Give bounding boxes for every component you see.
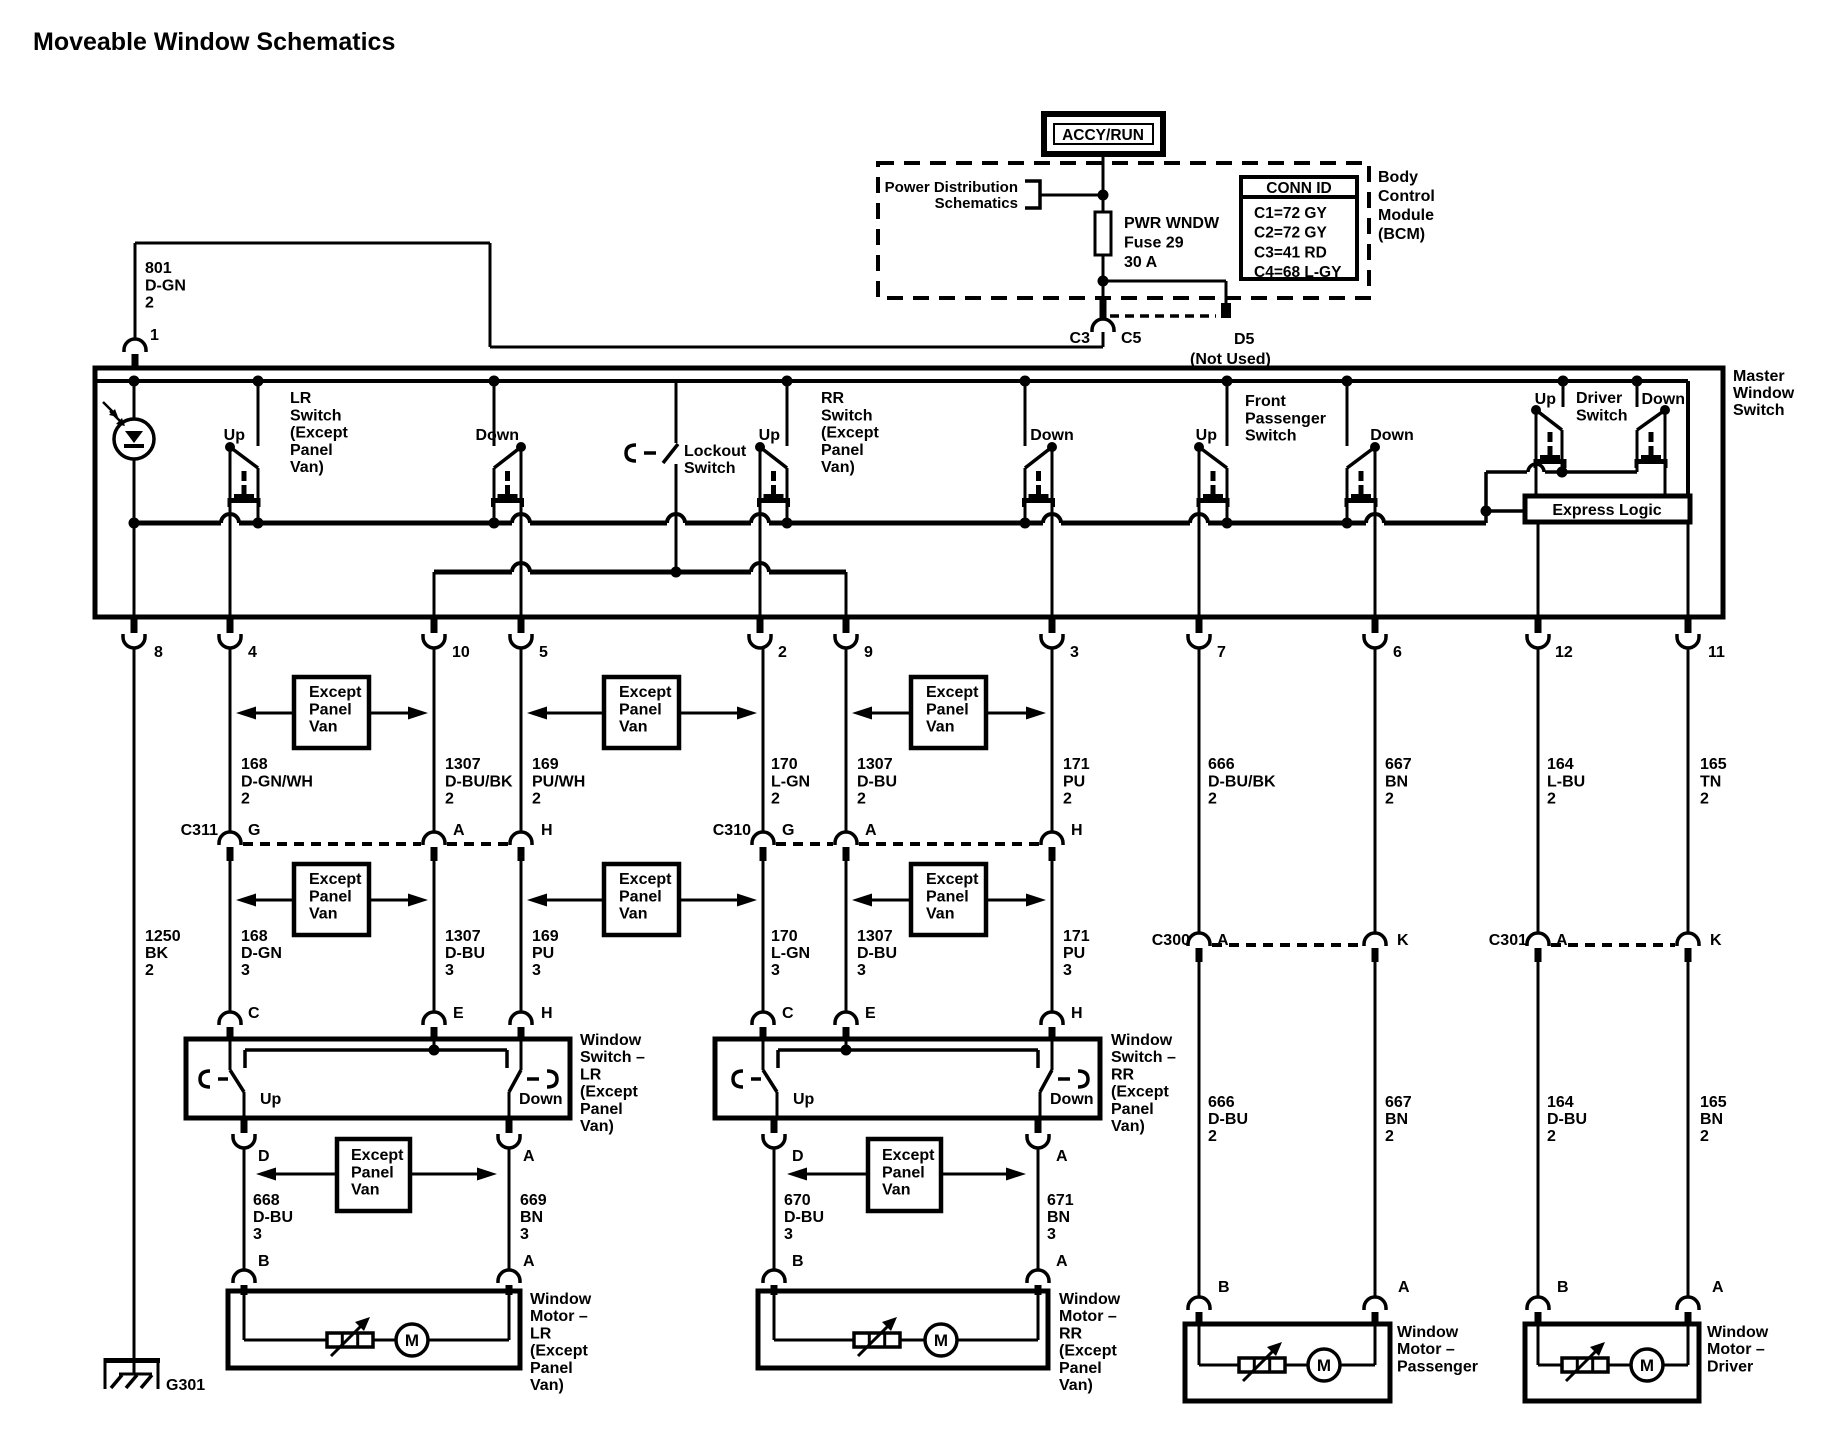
- svg-text:Motor –: Motor –: [1707, 1341, 1765, 1358]
- svg-text:170: 170: [771, 756, 798, 773]
- svg-text:169: 169: [532, 756, 559, 773]
- svg-text:Up: Up: [260, 1091, 282, 1108]
- svg-text:Panel: Panel: [1111, 1101, 1154, 1118]
- svg-text:Schematics: Schematics: [935, 195, 1018, 212]
- svg-text:667: 667: [1385, 1094, 1412, 1111]
- svg-text:D-BU/BK: D-BU/BK: [445, 773, 513, 790]
- svg-text:RR: RR: [1059, 1325, 1083, 1342]
- svg-text:Motor –: Motor –: [1397, 1341, 1455, 1358]
- svg-text:3: 3: [771, 962, 780, 979]
- svg-text:Panel: Panel: [619, 888, 662, 905]
- svg-text:Panel: Panel: [290, 442, 333, 459]
- svg-text:D: D: [258, 1148, 270, 1165]
- svg-text:Fuse 29: Fuse 29: [1124, 235, 1184, 252]
- svg-text:666: 666: [1208, 756, 1235, 773]
- svg-text:Panel: Panel: [882, 1164, 925, 1181]
- svg-text:Van): Van): [580, 1118, 614, 1135]
- svg-text:C300: C300: [1152, 932, 1190, 949]
- svg-text:171: 171: [1063, 756, 1090, 773]
- svg-text:2: 2: [1700, 1128, 1709, 1145]
- svg-text:C1=72 GY: C1=72 GY: [1254, 205, 1327, 222]
- svg-text:170: 170: [771, 928, 798, 945]
- svg-text:M: M: [405, 1331, 419, 1350]
- svg-text:D: D: [792, 1148, 804, 1165]
- svg-text:C301: C301: [1489, 932, 1527, 949]
- svg-text:Except: Except: [882, 1147, 935, 1164]
- svg-text:3: 3: [445, 962, 454, 979]
- svg-text:2: 2: [1208, 1128, 1217, 1145]
- svg-text:H: H: [1071, 1005, 1083, 1022]
- svg-text:Panel: Panel: [351, 1164, 394, 1181]
- svg-text:A: A: [1398, 1279, 1410, 1296]
- svg-text:Except: Except: [309, 871, 362, 888]
- svg-text:Except: Except: [926, 871, 979, 888]
- svg-text:PWR WNDW: PWR WNDW: [1124, 215, 1220, 232]
- svg-text:Van: Van: [619, 906, 647, 923]
- svg-text:Van): Van): [821, 459, 855, 476]
- svg-text:Panel: Panel: [821, 442, 864, 459]
- svg-text:L-GN: L-GN: [771, 945, 810, 962]
- svg-text:2: 2: [1063, 791, 1072, 808]
- svg-text:Van: Van: [926, 719, 954, 736]
- svg-text:Body: Body: [1378, 169, 1418, 186]
- svg-text:(Except: (Except: [1059, 1343, 1117, 1360]
- svg-text:3: 3: [857, 962, 866, 979]
- svg-text:Down: Down: [1050, 1091, 1094, 1108]
- svg-text:168: 168: [241, 928, 268, 945]
- svg-text:Down: Down: [475, 427, 519, 444]
- svg-text:B: B: [1557, 1279, 1569, 1296]
- svg-text:C3=41 RD: C3=41 RD: [1254, 244, 1327, 261]
- svg-text:BN: BN: [1385, 773, 1408, 790]
- svg-text:Express Logic: Express Logic: [1552, 502, 1661, 519]
- svg-text:Except: Except: [309, 684, 362, 701]
- svg-text:CONN ID: CONN ID: [1266, 180, 1331, 197]
- svg-text:1307: 1307: [857, 928, 893, 945]
- svg-text:(BCM): (BCM): [1378, 226, 1425, 243]
- svg-text:D-BU: D-BU: [857, 945, 897, 962]
- svg-text:TN: TN: [1700, 773, 1721, 790]
- svg-text:(Except: (Except: [290, 425, 348, 442]
- svg-text:Motor –: Motor –: [1059, 1308, 1117, 1325]
- svg-text:C4=68 L-GY: C4=68 L-GY: [1254, 264, 1342, 281]
- svg-text:C2=72 GY: C2=72 GY: [1254, 225, 1327, 242]
- svg-text:Except: Except: [926, 684, 979, 701]
- svg-text:(Except: (Except: [530, 1343, 588, 1360]
- svg-text:D-GN: D-GN: [241, 945, 282, 962]
- svg-text:169: 169: [532, 928, 559, 945]
- svg-text:Van): Van): [1059, 1377, 1093, 1394]
- svg-text:K: K: [1397, 932, 1409, 949]
- svg-text:Up: Up: [759, 427, 781, 444]
- svg-text:2: 2: [1208, 791, 1217, 808]
- svg-text:Van: Van: [619, 719, 647, 736]
- svg-text:B: B: [1218, 1279, 1230, 1296]
- svg-text:D-GN/WH: D-GN/WH: [241, 773, 313, 790]
- svg-text:D-BU: D-BU: [1547, 1111, 1587, 1128]
- svg-text:Van: Van: [926, 906, 954, 923]
- svg-text:BN: BN: [1047, 1209, 1070, 1226]
- svg-text:10: 10: [452, 644, 470, 661]
- svg-text:Switch: Switch: [684, 460, 736, 477]
- svg-text:(Except: (Except: [1111, 1084, 1169, 1101]
- svg-text:2: 2: [1547, 1128, 1556, 1145]
- svg-text:LR: LR: [580, 1066, 602, 1083]
- svg-text:D-BU/BK: D-BU/BK: [1208, 773, 1276, 790]
- svg-text:2: 2: [145, 295, 154, 312]
- svg-text:Panel: Panel: [619, 701, 662, 718]
- svg-text:168: 168: [241, 756, 268, 773]
- svg-text:A: A: [523, 1148, 535, 1165]
- svg-text:Window: Window: [1397, 1324, 1459, 1341]
- svg-text:Master: Master: [1733, 368, 1785, 385]
- svg-text:Van: Van: [351, 1182, 379, 1199]
- svg-text:670: 670: [784, 1192, 811, 1209]
- svg-text:A: A: [1712, 1279, 1724, 1296]
- svg-text:1: 1: [150, 327, 159, 344]
- svg-text:Van: Van: [882, 1182, 910, 1199]
- svg-text:Van: Van: [309, 906, 337, 923]
- svg-text:1307: 1307: [445, 928, 481, 945]
- svg-text:6: 6: [1393, 644, 1402, 661]
- svg-text:165: 165: [1700, 1094, 1727, 1111]
- svg-text:Van): Van): [530, 1377, 564, 1394]
- svg-text:7: 7: [1217, 644, 1226, 661]
- svg-text:A: A: [1056, 1148, 1068, 1165]
- svg-text:Up: Up: [1196, 427, 1218, 444]
- svg-text:669: 669: [520, 1192, 547, 1209]
- svg-text:M: M: [1317, 1356, 1331, 1375]
- svg-text:Switch: Switch: [821, 407, 873, 424]
- svg-text:G301: G301: [166, 1377, 205, 1394]
- svg-text:(Not Used): (Not Used): [1190, 351, 1271, 368]
- svg-text:(Except: (Except: [580, 1084, 638, 1101]
- svg-text:2: 2: [1385, 791, 1394, 808]
- svg-text:B: B: [258, 1253, 270, 1270]
- svg-text:BN: BN: [520, 1209, 543, 1226]
- svg-text:5: 5: [539, 644, 548, 661]
- svg-text:A: A: [453, 822, 465, 839]
- svg-text:D-BU: D-BU: [857, 773, 897, 790]
- svg-text:Power Distribution: Power Distribution: [885, 179, 1018, 196]
- svg-text:D-BU: D-BU: [1208, 1111, 1248, 1128]
- svg-text:Moveable Window Schematics: Moveable Window Schematics: [33, 28, 395, 56]
- svg-text:Window: Window: [1111, 1032, 1173, 1049]
- svg-text:3: 3: [1063, 962, 1072, 979]
- svg-text:1307: 1307: [857, 756, 893, 773]
- svg-text:M: M: [1640, 1356, 1654, 1375]
- svg-text:D-BU: D-BU: [784, 1209, 824, 1226]
- svg-text:Panel: Panel: [309, 701, 352, 718]
- svg-text:671: 671: [1047, 1192, 1074, 1209]
- svg-text:H: H: [541, 822, 553, 839]
- svg-text:Except: Except: [351, 1147, 404, 1164]
- svg-text:L-BU: L-BU: [1547, 773, 1585, 790]
- svg-text:Panel: Panel: [1059, 1360, 1102, 1377]
- svg-text:2: 2: [771, 791, 780, 808]
- svg-text:Control: Control: [1378, 188, 1435, 205]
- svg-text:801: 801: [145, 260, 172, 277]
- svg-text:2: 2: [1385, 1128, 1394, 1145]
- svg-text:G: G: [248, 822, 260, 839]
- svg-text:2: 2: [1547, 791, 1556, 808]
- svg-text:E: E: [453, 1005, 464, 1022]
- svg-text:Panel: Panel: [309, 888, 352, 905]
- svg-text:Passenger: Passenger: [1397, 1358, 1478, 1375]
- svg-text:PU: PU: [1063, 945, 1085, 962]
- svg-text:H: H: [1071, 822, 1083, 839]
- svg-text:1307: 1307: [445, 756, 481, 773]
- svg-text:K: K: [1710, 932, 1722, 949]
- svg-text:Except: Except: [619, 684, 672, 701]
- svg-text:2: 2: [532, 791, 541, 808]
- svg-text:Window: Window: [1059, 1291, 1121, 1308]
- svg-text:666: 666: [1208, 1094, 1235, 1111]
- svg-text:Down: Down: [1370, 427, 1414, 444]
- svg-text:BN: BN: [1700, 1111, 1723, 1128]
- svg-text:Motor –: Motor –: [530, 1308, 588, 1325]
- svg-text:Window: Window: [1733, 385, 1795, 402]
- svg-text:Switch: Switch: [1245, 428, 1297, 445]
- svg-text:LR: LR: [530, 1325, 552, 1342]
- svg-text:667: 667: [1385, 756, 1412, 773]
- svg-text:C310: C310: [713, 822, 751, 839]
- svg-text:Window: Window: [580, 1032, 642, 1049]
- svg-text:M: M: [934, 1331, 948, 1350]
- svg-text:Up: Up: [224, 427, 246, 444]
- svg-text:1250: 1250: [145, 928, 181, 945]
- svg-text:A: A: [1556, 932, 1568, 949]
- svg-text:C3: C3: [1070, 330, 1091, 347]
- svg-text:C5: C5: [1121, 330, 1142, 347]
- svg-text:171: 171: [1063, 928, 1090, 945]
- svg-text:Down: Down: [1641, 391, 1685, 408]
- svg-text:BK: BK: [145, 945, 169, 962]
- svg-text:Switch: Switch: [290, 407, 342, 424]
- svg-text:A: A: [1056, 1253, 1068, 1270]
- svg-text:(Except: (Except: [821, 425, 879, 442]
- svg-text:30 A: 30 A: [1124, 254, 1158, 271]
- svg-text:A: A: [1217, 932, 1229, 949]
- svg-text:2: 2: [445, 791, 454, 808]
- svg-text:D-BU: D-BU: [253, 1209, 293, 1226]
- svg-text:BN: BN: [1385, 1111, 1408, 1128]
- svg-text:A: A: [523, 1253, 535, 1270]
- svg-text:3: 3: [241, 962, 250, 979]
- svg-text:A: A: [865, 822, 877, 839]
- svg-text:2: 2: [778, 644, 787, 661]
- svg-text:4: 4: [248, 644, 257, 661]
- svg-text:Panel: Panel: [530, 1360, 573, 1377]
- svg-text:3: 3: [532, 962, 541, 979]
- svg-text:668: 668: [253, 1192, 280, 1209]
- svg-text:164: 164: [1547, 1094, 1574, 1111]
- svg-text:9: 9: [864, 644, 873, 661]
- svg-text:Window: Window: [530, 1291, 592, 1308]
- svg-text:PU: PU: [532, 945, 554, 962]
- svg-text:8: 8: [154, 644, 163, 661]
- svg-text:Driver: Driver: [1707, 1358, 1753, 1375]
- svg-text:3: 3: [784, 1226, 793, 1243]
- svg-text:B: B: [792, 1253, 804, 1270]
- svg-text:3: 3: [1047, 1226, 1056, 1243]
- svg-text:Except: Except: [619, 871, 672, 888]
- svg-text:Van: Van: [309, 719, 337, 736]
- svg-text:Up: Up: [793, 1091, 815, 1108]
- svg-text:Passenger: Passenger: [1245, 410, 1326, 427]
- svg-text:Switch –: Switch –: [580, 1049, 645, 1066]
- svg-text:C311: C311: [181, 822, 218, 839]
- svg-text:Panel: Panel: [926, 701, 969, 718]
- svg-text:C: C: [782, 1005, 794, 1022]
- svg-text:PU/WH: PU/WH: [532, 773, 585, 790]
- svg-text:Panel: Panel: [926, 888, 969, 905]
- svg-text:Driver: Driver: [1576, 390, 1622, 407]
- svg-text:Up: Up: [1535, 391, 1557, 408]
- svg-text:PU: PU: [1063, 773, 1085, 790]
- svg-text:Window: Window: [1707, 1324, 1769, 1341]
- svg-text:Module: Module: [1378, 207, 1434, 224]
- svg-text:RR: RR: [821, 390, 845, 407]
- svg-text:Down: Down: [1030, 427, 1074, 444]
- svg-text:Front: Front: [1245, 393, 1287, 410]
- svg-text:Van): Van): [290, 459, 324, 476]
- svg-text:Down: Down: [519, 1091, 563, 1108]
- svg-text:2: 2: [145, 962, 154, 979]
- svg-text:2: 2: [241, 791, 250, 808]
- svg-text:LR: LR: [290, 390, 312, 407]
- svg-text:G: G: [782, 822, 794, 839]
- svg-text:Switch: Switch: [1576, 407, 1628, 424]
- svg-text:165: 165: [1700, 756, 1727, 773]
- svg-text:E: E: [865, 1005, 876, 1022]
- svg-text:D5: D5: [1234, 331, 1255, 348]
- svg-text:3: 3: [1070, 644, 1079, 661]
- svg-text:2: 2: [857, 791, 866, 808]
- svg-text:Lockout: Lockout: [684, 443, 747, 460]
- svg-text:3: 3: [253, 1226, 262, 1243]
- svg-text:D-BU: D-BU: [445, 945, 485, 962]
- svg-text:RR: RR: [1111, 1066, 1135, 1083]
- svg-text:Switch –: Switch –: [1111, 1049, 1176, 1066]
- svg-text:Van): Van): [1111, 1118, 1145, 1135]
- svg-text:12: 12: [1555, 644, 1573, 661]
- svg-text:D-GN: D-GN: [145, 277, 186, 294]
- svg-text:C: C: [248, 1005, 260, 1022]
- svg-text:L-GN: L-GN: [771, 773, 810, 790]
- svg-text:11: 11: [1708, 644, 1725, 661]
- svg-text:ACCY/RUN: ACCY/RUN: [1062, 127, 1144, 144]
- svg-text:3: 3: [520, 1226, 529, 1243]
- svg-text:Switch: Switch: [1733, 402, 1785, 419]
- svg-text:164: 164: [1547, 756, 1574, 773]
- svg-text:H: H: [541, 1005, 553, 1022]
- svg-text:2: 2: [1700, 791, 1709, 808]
- svg-text:Panel: Panel: [580, 1101, 623, 1118]
